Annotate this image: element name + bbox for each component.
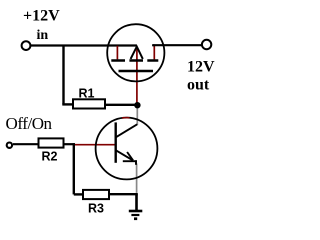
transistor Q1 circle: [96, 118, 158, 180]
transistor emitter arrow barb: [127, 152, 133, 160]
svg-text:R2: R2: [42, 149, 58, 163]
svg-text:+12V: +12V: [23, 8, 60, 25]
wire MOSFET to output terminal: [153, 44, 202, 46]
MOSFET substrate arrow: [131, 47, 143, 59]
resistor R3: [83, 190, 109, 199]
wire gray emitter down: [136, 164, 138, 193]
svg-text:R3: R3: [88, 202, 104, 216]
wire input to MOSFET: [31, 44, 137, 46]
wire corner to R3: [74, 193, 84, 195]
wire down to ground: [135, 194, 138, 210]
wire R2 to corner: [64, 143, 75, 145]
red arc remnant on Q1 circle: [122, 117, 130, 119]
MOSFET left source drop: [116, 46, 118, 60]
MOSFET right drain drop: [153, 46, 155, 60]
wire corner down to R3 row: [73, 143, 75, 194]
wire gate lead red (MOSFET gate to node): [136, 47, 138, 103]
terminal input (+12V in): [22, 41, 31, 50]
wire R3 to emitter line: [109, 193, 138, 195]
transistor emitter line: [116, 150, 133, 160]
MOSFET gate bar: [119, 70, 154, 73]
transistor collector line: [116, 124, 137, 137]
resistor R1: [73, 99, 105, 108]
wire terminal to R2: [13, 143, 39, 145]
svg-text:in: in: [37, 28, 49, 43]
ground: [129, 211, 143, 220]
wire branch vertical to R1: [62, 46, 64, 105]
MOSFET U1 circle: [107, 24, 164, 81]
MOSFET middle bar: [129, 59, 143, 62]
wire corner to R1: [62, 103, 73, 105]
svg-text:12V: 12V: [187, 59, 215, 76]
terminal output (12V out): [202, 40, 211, 49]
svg-text:Off/On: Off/On: [6, 114, 53, 133]
MOSFET left source bar: [111, 59, 125, 62]
node junction dot: [134, 102, 140, 108]
wire red corner to base: [75, 144, 116, 146]
wire R1 to node: [105, 104, 138, 106]
wire gray node to collector: [136, 105, 138, 125]
transistor base bar: [114, 122, 116, 162]
resistor R2: [39, 138, 64, 147]
transistor emitter corner down: [135, 160, 137, 165]
terminal Off/On: [7, 143, 12, 148]
MOSFET right drain bar: [147, 59, 158, 62]
transistor emitter horizontal: [123, 160, 137, 162]
svg-text:out: out: [187, 77, 210, 94]
wire corner at right drop: [152, 44, 154, 46]
